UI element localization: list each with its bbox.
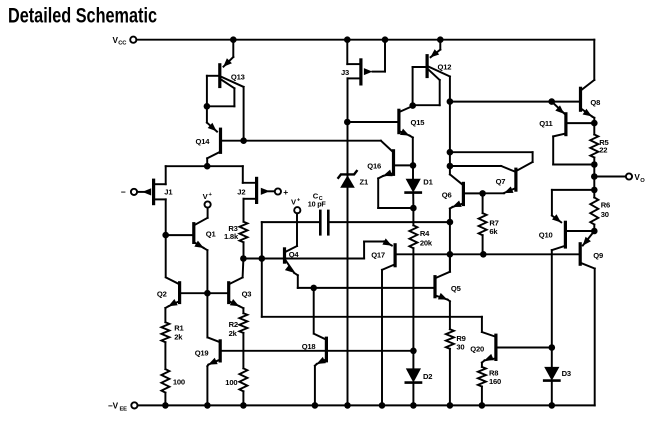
svg-text:30: 30 [456, 342, 464, 351]
svg-text:Q9: Q9 [593, 251, 603, 260]
svg-text:−V: −V [108, 402, 119, 411]
svg-text:D3: D3 [562, 369, 571, 378]
svg-text:Q10: Q10 [539, 230, 553, 239]
svg-text:20k: 20k [420, 238, 433, 247]
svg-text:Q20: Q20 [470, 344, 484, 353]
svg-text:Q15: Q15 [411, 118, 426, 127]
svg-text:Z1: Z1 [360, 177, 369, 186]
svg-text:J3: J3 [341, 68, 349, 77]
svg-text:Q16: Q16 [367, 161, 381, 170]
svg-text:D1: D1 [423, 177, 433, 186]
svg-text:6k: 6k [489, 227, 498, 236]
svg-text:100: 100 [225, 378, 237, 387]
svg-text:Q17: Q17 [371, 251, 385, 260]
svg-text:+: + [283, 187, 288, 197]
svg-text:R2: R2 [229, 320, 238, 329]
svg-text:160: 160 [489, 377, 501, 386]
svg-text:Q2: Q2 [157, 289, 167, 298]
svg-text:Q5: Q5 [451, 284, 462, 293]
svg-text:R6: R6 [601, 201, 610, 210]
svg-text:Q11: Q11 [539, 119, 553, 128]
svg-text:D2: D2 [423, 372, 432, 381]
svg-text:Q8: Q8 [590, 98, 600, 107]
svg-text:−: − [121, 187, 126, 197]
svg-text:Q1: Q1 [206, 230, 217, 239]
svg-text:2k: 2k [229, 329, 238, 338]
svg-text:R1: R1 [174, 324, 184, 333]
svg-text:R4: R4 [420, 229, 430, 238]
svg-text:Q14: Q14 [196, 137, 211, 146]
svg-text:Q7: Q7 [496, 177, 506, 186]
svg-text:Q13: Q13 [231, 72, 245, 81]
svg-text:Q19: Q19 [195, 349, 209, 358]
svg-text:CC: CC [118, 41, 127, 47]
svg-text:2k: 2k [174, 333, 183, 342]
svg-text:30: 30 [601, 210, 609, 219]
svg-text:Q18: Q18 [302, 342, 316, 351]
svg-text:J1: J1 [164, 188, 173, 197]
svg-text:EE: EE [120, 406, 128, 412]
svg-text:Q3: Q3 [242, 289, 252, 298]
svg-text:22: 22 [599, 146, 607, 155]
svg-text:Q12: Q12 [438, 63, 452, 72]
svg-text:Q6: Q6 [442, 191, 452, 200]
svg-text:O: O [640, 178, 645, 184]
svg-text:J2: J2 [237, 187, 245, 196]
svg-text:10 pF: 10 pF [308, 200, 327, 209]
svg-text:Detailed Schematic: Detailed Schematic [8, 5, 157, 28]
svg-text:100: 100 [173, 378, 185, 387]
svg-text:1.8k: 1.8k [224, 232, 239, 241]
svg-text:Q4: Q4 [289, 250, 300, 259]
